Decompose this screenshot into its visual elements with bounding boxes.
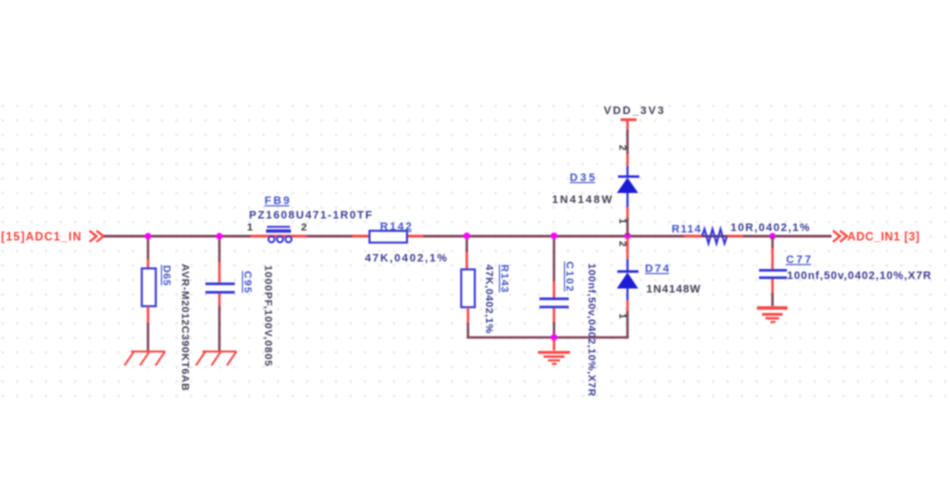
power VDD_3V3	[604, 105, 664, 130]
resistor R143	[461, 236, 475, 322]
capacitor C77	[759, 236, 787, 306]
wire: D35 to main	[626, 218, 628, 236]
wire: R142 left pin	[352, 235, 370, 238]
svg-text:D65: D65	[161, 265, 173, 286]
junction dot C102	[551, 233, 558, 240]
label R143	[499, 264, 511, 292]
wire: FB9 pin red segment	[251, 235, 308, 238]
ground earth C77	[757, 308, 788, 322]
svg-text:1N4148W: 1N4148W	[552, 194, 613, 206]
svg-text:1N4148W: 1N4148W	[646, 284, 701, 296]
label D65	[161, 265, 173, 286]
svg-text:47K,0402,1%: 47K,0402,1%	[365, 253, 447, 265]
svg-text:R143: R143	[499, 264, 511, 292]
wire: R114 left pin	[684, 235, 702, 238]
ground earth C102	[538, 339, 570, 364]
resistor R114 zigzag	[702, 229, 727, 244]
svg-text:C77: C77	[786, 254, 811, 266]
svg-text:PZ1608U471-1R0TF: PZ1608U471-1R0TF	[249, 210, 372, 222]
wire: VDD to D35	[626, 129, 628, 154]
label D74	[645, 263, 670, 275]
input port chevron	[90, 231, 104, 242]
label C77	[786, 254, 811, 266]
diode D35	[617, 154, 640, 218]
junction dot bottom	[551, 334, 558, 341]
ground chassis D65	[125, 352, 166, 366]
ground chassis C95	[196, 352, 237, 366]
svg-text:ADC_IN1 [3]: ADC_IN1 [3]	[847, 232, 919, 244]
wire: R114 right pin	[727, 235, 743, 238]
output port chevron	[833, 231, 847, 242]
junction dot R143	[464, 233, 471, 240]
wire: bottom net right	[554, 336, 628, 338]
capacitor C95	[205, 236, 234, 351]
label D35	[570, 172, 595, 184]
resistor R142	[370, 231, 408, 243]
wire: bottom net left	[468, 323, 554, 338]
svg-text:1: 1	[247, 221, 253, 233]
svg-text:R114: R114	[672, 224, 702, 236]
varistor D65	[142, 236, 156, 351]
svg-text:10R,0402,1%: 10R,0402,1%	[731, 222, 810, 234]
svg-text:FB9: FB9	[265, 195, 290, 207]
svg-text:C95: C95	[242, 271, 254, 293]
label FB9	[265, 195, 290, 207]
svg-text:47K,0402,1%: 47K,0402,1%	[483, 264, 495, 334]
svg-text:2: 2	[301, 221, 307, 233]
wire: R142 right pin	[407, 235, 423, 238]
wire: D74 to bottom net	[626, 311, 628, 339]
junction dot at C95	[216, 233, 223, 240]
capacitor C102	[539, 236, 568, 337]
svg-text:[15]ADC1_IN: [15]ADC1_IN	[1, 231, 81, 243]
wire: main horizontal net	[104, 235, 832, 238]
label R142	[380, 221, 412, 233]
svg-text:C102: C102	[564, 261, 576, 291]
junction dot D35/D74	[624, 233, 631, 240]
label C95	[242, 271, 254, 293]
svg-text:AVR-M2012C390KT6AB: AVR-M2012C390KT6AB	[179, 264, 191, 391]
junction dot C77	[769, 233, 776, 240]
junction dot at D65	[145, 233, 152, 240]
svg-text:100nf,50v,0402,10%,X7R: 100nf,50v,0402,10%,X7R	[586, 263, 598, 396]
svg-text:1: 1	[617, 218, 628, 224]
svg-text:100nf,50v,0402,10%,X7R: 100nf,50v,0402,10%,X7R	[787, 270, 931, 282]
diode D74	[617, 238, 639, 311]
svg-text:2: 2	[617, 241, 628, 247]
svg-text:1: 1	[617, 313, 628, 319]
svg-text:2: 2	[617, 145, 628, 151]
svg-text:VDD_3V3: VDD_3V3	[604, 105, 664, 117]
ferrite bead FB9	[266, 227, 292, 243]
svg-text:1000PF,100V,0805: 1000PF,100V,0805	[262, 265, 274, 366]
label C102	[564, 261, 576, 291]
net label [15]ADC1_IN	[1, 231, 81, 243]
